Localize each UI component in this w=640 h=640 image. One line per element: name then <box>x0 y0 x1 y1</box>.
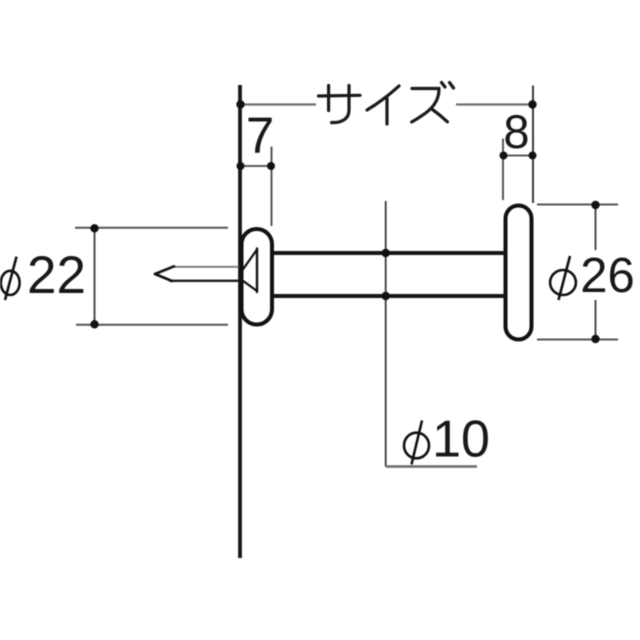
label size katakana SA <box>319 86 361 123</box>
dim phi10 phi symbol <box>404 421 429 465</box>
bar bottom line <box>274 294 504 298</box>
extension line right (top, x=533) <box>532 86 534 204</box>
svg-text:7: 7 <box>246 107 274 164</box>
right flange capsule <box>506 206 532 340</box>
dim phi26 vertical line lower <box>595 300 597 340</box>
size dimension line (left segment) <box>240 103 316 105</box>
dim 8: dot left <box>500 152 508 160</box>
dim 8: dot right <box>529 152 537 160</box>
dim phi26 dot top <box>591 201 599 209</box>
dim phi10 leader vertical <box>385 201 387 467</box>
label size katakana I <box>367 86 399 124</box>
left flange capsule <box>242 229 273 325</box>
dim phi10 leader underline <box>386 465 477 467</box>
svg-text:26: 26 <box>580 249 635 303</box>
size dim dot left <box>236 100 244 108</box>
needle spike <box>155 266 238 281</box>
size dim dot right <box>528 100 536 108</box>
svg-text:22: 22 <box>27 246 86 305</box>
dim phi26 bottom extension line <box>537 339 618 341</box>
dim 7: extension line x=271.5 <box>271 147 273 227</box>
label size katakana ZU <box>412 83 454 123</box>
dim 7: dimension line <box>241 165 271 167</box>
wall line <box>238 85 242 558</box>
dim phi22 dot top <box>90 224 98 232</box>
dim phi26 dot bottom <box>591 335 599 343</box>
needle cone inside flange <box>243 249 258 293</box>
dim 7: dot right <box>267 162 275 170</box>
dim phi10 junction dot bottom <box>382 292 390 300</box>
dim phi26 top extension line <box>537 204 618 206</box>
bar top line <box>274 251 504 255</box>
dim phi22 phi symbol <box>1 257 20 300</box>
dim 8: dimension line <box>503 155 533 157</box>
dim phi22 dot bottom <box>90 320 98 328</box>
dim phi22 bottom extension line <box>76 324 228 326</box>
dim phi26 phi symbol <box>550 256 576 300</box>
dim phi26 vertical line upper <box>595 205 597 251</box>
dim phi22 vertical line <box>94 228 96 325</box>
svg-text:8: 8 <box>503 105 529 158</box>
dim phi22 top extension line <box>75 227 228 229</box>
size dimension line (right segment) <box>456 103 533 105</box>
dim 7: dot left <box>237 162 245 170</box>
dim 8: extension line x=503 <box>502 139 504 201</box>
dim phi10 junction dot top <box>382 249 390 257</box>
svg-text:10: 10 <box>432 411 490 469</box>
